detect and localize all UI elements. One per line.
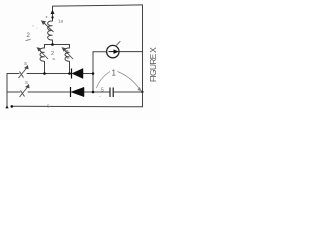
wire rail B right [84,91,110,93]
node E (rail B to link) [92,91,95,94]
node D (rail A to link) [92,72,95,75]
speck noise [32,25,33,26]
svg-text:1a: 1a [58,19,64,24]
wire rail B cap-right [114,91,143,93]
wire rail B left [7,91,20,93]
terminal arrow bottom-left [5,105,8,109]
terminal dot bottom-left [11,105,14,108]
speck [46,16,48,18]
svg-text:S: S [25,80,28,85]
node B (left winding to rail A) [43,72,46,75]
wire main vertical bottom [52,40,54,45]
wire branch split right [53,45,70,49]
wire link vertical [92,52,94,92]
capacitor C [110,88,113,98]
wire main vertical top [52,6,54,21]
wire bottom rail [13,105,143,108]
wire left branch bottom [44,62,46,74]
arrow across L1 [42,21,54,32]
inductor L1 (variable, main winding) [48,21,53,40]
wire rail B mid [28,91,70,93]
wire rail A left [7,73,19,75]
winding 2 (left branch) [40,48,45,61]
diode D1 [72,69,84,79]
dash under label 2 [26,40,31,41]
wire right branch bottom [69,62,71,74]
meter M (circle with arrow) [107,45,119,57]
wire meter left [93,51,107,53]
node C (right winding to rail A) [68,72,71,75]
svg-text:1: 1 [112,69,117,78]
wire right bus [142,5,144,107]
leader left from label 1 [97,72,111,89]
tick on meter top [116,41,120,45]
arrow across winding 2 [37,48,48,59]
svg-text:FIGURE X: FIGURE X [148,47,158,82]
wire top rail [53,5,143,6]
winding 3 (right branch) [65,48,70,61]
wire left bus [6,74,8,106]
arrow across winding 3 [62,48,73,59]
wire meter right [119,51,143,53]
node F (rail B to right bus) [141,91,143,93]
current arrow on main wire [51,10,55,19]
node A (branch split) [51,43,54,46]
wire rail A right [83,73,93,75]
switch S1 [19,66,29,78]
switch S2 [20,85,30,97]
wire branch split left [45,45,53,49]
svg-text:S: S [24,61,27,66]
arrow inside meter [109,50,118,53]
diode D2 [71,87,85,97]
svg-text:5: 5 [101,88,104,94]
wire rail A mid [27,73,71,75]
leader right from label 1 with arrow [118,72,142,91]
